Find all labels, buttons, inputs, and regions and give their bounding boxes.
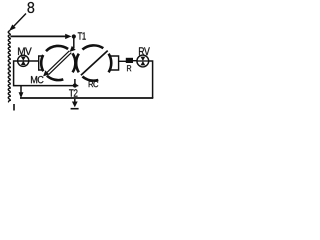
node T1 (72, 34, 76, 38)
wire MV left down (14, 61, 79, 86)
brush arrow T1 (73, 38, 75, 49)
brush yoke left (39, 56, 43, 70)
tick below T2 arrow (71, 108, 79, 110)
leader arrow for 8 (14, 14, 27, 27)
brush yoke right (110, 56, 118, 70)
rotation arrow MC (47, 51, 70, 73)
wire R to RV (133, 60, 137, 62)
meter MV (18, 48, 32, 56)
resistor R (126, 58, 133, 63)
label 8 (28, 2, 35, 13)
arrow left branch (20, 86, 22, 94)
wire bottom bus (20, 97, 153, 99)
node T2 (73, 83, 77, 87)
stator MC (41, 46, 75, 80)
tick bottom left (13, 104, 15, 111)
torn-edge wire (left zigzag) (8, 31, 10, 103)
label RC (89, 81, 99, 87)
arrow T2 out (74, 99, 76, 103)
stator RC (76, 45, 111, 80)
rotor line RC (81, 51, 108, 76)
valve RV (139, 47, 150, 55)
wire RV right down (149, 61, 153, 98)
wire MV right (18, 60, 39, 62)
label MC (31, 76, 44, 83)
wire rotor junction down (74, 79, 76, 84)
wire top (to T1) (11, 35, 67, 37)
